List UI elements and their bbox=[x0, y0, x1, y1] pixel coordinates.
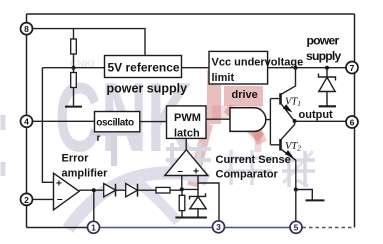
wire D2 to R4 bbox=[138, 189, 157, 191]
wire 5V box to Vcc box bbox=[182, 67, 210, 69]
wire to pin 5 bbox=[295, 190, 297, 222]
ground below divider bbox=[65, 106, 82, 108]
wire R1 to node bbox=[73, 54, 75, 68]
diode D2 bbox=[126, 184, 138, 197]
diode D1 bbox=[104, 184, 116, 197]
resistor R1 bbox=[71, 39, 77, 54]
svg-text:oscillato: oscillato bbox=[96, 118, 134, 129]
svg-text:7: 7 bbox=[350, 63, 355, 73]
svg-text:limit: limit bbox=[212, 72, 235, 84]
node output junction bbox=[293, 119, 297, 123]
error amplifier bbox=[54, 173, 80, 210]
resistor R4 bbox=[156, 187, 170, 193]
pin 8 bbox=[21, 23, 33, 35]
wire Vcc box to pin 7 bbox=[268, 67, 347, 69]
node zener junction bbox=[325, 66, 329, 70]
svg-text:–: – bbox=[57, 194, 63, 205]
frame top edge bbox=[27, 13, 355, 15]
svg-text:supply: supply bbox=[306, 49, 341, 63]
node divider junction bbox=[72, 66, 76, 70]
wire output to pin 6 bbox=[295, 120, 346, 122]
frame bottom edge navy segment pin1 to pin5 bbox=[94, 227, 297, 229]
pin 7 bbox=[346, 62, 358, 74]
wire pin2 to inverting input bbox=[27, 198, 54, 200]
wire VT1 collector bbox=[281, 68, 296, 95]
svg-text:2: 2 bbox=[24, 195, 29, 205]
svg-text:5V reference: 5V reference bbox=[108, 61, 180, 75]
comparator current sense bbox=[165, 150, 208, 176]
node VT1 collector junction bbox=[294, 66, 298, 70]
svg-text:drive: drive bbox=[232, 89, 258, 101]
wire comparator plus input to pin 3 bbox=[198, 176, 219, 222]
node COMP junction bbox=[92, 188, 96, 192]
ground near pin 5 bbox=[296, 190, 313, 201]
wire COMP to pin 1 bbox=[93, 190, 95, 221]
svg-text:Error: Error bbox=[62, 153, 90, 165]
resistor R2 bbox=[71, 73, 77, 88]
pin 1 bbox=[88, 221, 100, 233]
wire pin8 to 5V reference box bbox=[27, 29, 146, 56]
svg-text:VT1: VT1 bbox=[285, 96, 301, 108]
svg-text:+: + bbox=[56, 179, 62, 190]
svg-text:Vcc undervoltage: Vcc undervoltage bbox=[212, 57, 304, 69]
wire PWM latch to comparator bbox=[185, 138, 187, 150]
svg-text:Comparator: Comparator bbox=[216, 169, 279, 181]
node minus input junction bbox=[180, 187, 184, 191]
wire D1 to D2 bbox=[116, 189, 126, 191]
frame left edge bbox=[26, 14, 28, 228]
wire resistor feed from pin8 wire bbox=[73, 29, 75, 39]
watermark bbox=[3, 59, 315, 229]
svg-text:output: output bbox=[299, 109, 334, 121]
frame bottom edge dashed segment pin5 to corner bbox=[296, 227, 355, 229]
wire gate output split to transistor bases bbox=[266, 99, 281, 145]
svg-text:power: power bbox=[307, 34, 340, 48]
wire comparator minus input bbox=[181, 176, 183, 190]
svg-text:5: 5 bbox=[294, 223, 299, 233]
zener diode VZ1 bbox=[319, 68, 336, 106]
block 5V reference power supply bbox=[105, 56, 182, 78]
frame right edge bbox=[354, 14, 356, 228]
zener diode VZ2 bbox=[190, 183, 207, 217]
wire R2 to ground bbox=[73, 68, 75, 106]
wire error amp output bbox=[79, 189, 104, 191]
svg-text:8: 8 bbox=[24, 24, 29, 34]
block PWM latch bbox=[167, 106, 207, 138]
block Vcc undervoltage limit bbox=[209, 51, 268, 84]
block oscillator bbox=[95, 112, 140, 132]
pin 3 bbox=[213, 221, 225, 233]
svg-text:Current Sense: Current Sense bbox=[216, 154, 291, 166]
svg-text:amplifier: amplifier bbox=[62, 168, 109, 180]
wire R4 to node bbox=[170, 189, 182, 191]
transistor VT1 bbox=[279, 93, 282, 104]
resistor R3 bbox=[181, 189, 183, 217]
node emitter ground junction bbox=[294, 188, 298, 192]
pin 2 bbox=[21, 193, 33, 205]
svg-text:latch: latch bbox=[174, 127, 200, 139]
pin 6 bbox=[346, 116, 358, 128]
drive gate U1 bbox=[230, 108, 266, 132]
svg-text:4: 4 bbox=[24, 117, 29, 127]
wire oscillator to pin4 bbox=[27, 120, 95, 122]
svg-text:power supply: power supply bbox=[107, 82, 188, 96]
wire 5V rail to box bbox=[42, 67, 104, 69]
svg-text:6: 6 bbox=[350, 117, 355, 127]
pin 5 bbox=[290, 221, 302, 233]
svg-text:r: r bbox=[97, 133, 101, 144]
svg-text:VT2: VT2 bbox=[285, 141, 301, 153]
pin 4 bbox=[21, 115, 33, 127]
ground bar below R3 and VZ2 bbox=[175, 217, 207, 219]
wire oscillator to PWM latch bbox=[140, 121, 167, 123]
svg-text:PWM: PWM bbox=[174, 112, 201, 124]
wire reference to error amp plus input bbox=[42, 68, 53, 183]
wire VT2 emitter down bbox=[295, 160, 297, 189]
svg-text:1: 1 bbox=[91, 223, 96, 233]
wire node to zener bbox=[182, 188, 198, 190]
transistor VT2 bbox=[279, 139, 282, 151]
svg-text:–: – bbox=[178, 166, 184, 177]
wire PWM latch to drive gate bbox=[206, 118, 230, 120]
ground bar below zener VZ1 bbox=[319, 105, 337, 107]
svg-text:3: 3 bbox=[216, 222, 221, 232]
frame bottom edge left segment bbox=[27, 227, 94, 229]
